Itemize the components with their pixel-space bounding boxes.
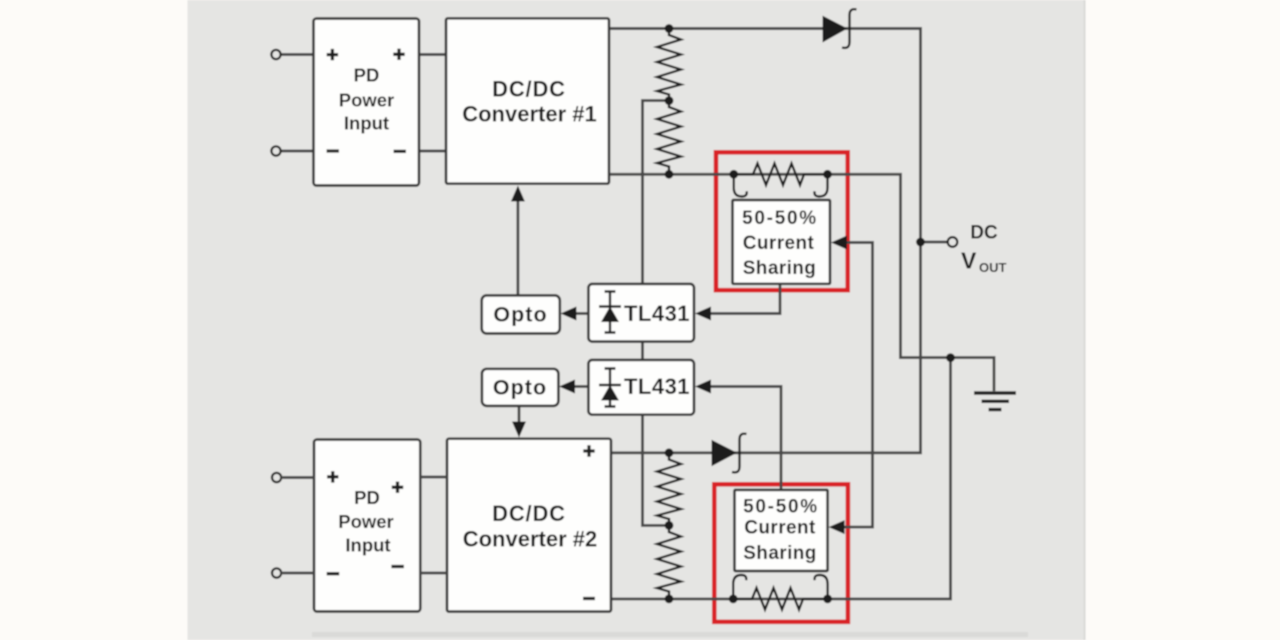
right edge shading of panel: [1084, 0, 1086, 640]
Opto box 1: [482, 295, 560, 333]
TL431 box 1: [588, 284, 694, 342]
input terminal circle 2-: [272, 568, 281, 577]
Opto box 2: [482, 369, 559, 406]
svg-text:DC: DC: [970, 223, 998, 244]
red highlight box (bottom) around current-share sense: [714, 484, 848, 622]
svg-text:DC/DC: DC/DC: [492, 77, 566, 102]
arrow down from opto 2 into converter 2: [512, 422, 526, 438]
label: DC/DC Converter #2: [463, 501, 598, 552]
input terminal circle 1+: [271, 50, 280, 59]
wire: opto 1 feedback to converter 1: [516, 200, 519, 295]
diode D2 schottky cathode: [732, 434, 747, 473]
arrow TL431 #1 to opto 1: [561, 307, 577, 321]
svg-text:Sharing: Sharing: [743, 258, 817, 279]
wire: PD input 2 to converter 2 (-): [420, 572, 447, 575]
50-50% current sharing inner box 2: [735, 490, 828, 571]
svg-text:PD: PD: [354, 487, 380, 508]
junction node: sense resistor 2 left: [729, 595, 738, 604]
wire: PD input 1 - to DC/DC converter 1: [419, 150, 446, 153]
svg-text:Input: Input: [345, 535, 390, 556]
junction node: divider 2 top: [665, 448, 674, 457]
svg-text:TL431: TL431: [624, 374, 690, 399]
junction node: Vout tap: [916, 238, 925, 247]
svg-text:Current: Current: [744, 518, 816, 539]
svg-text:PD: PD: [354, 65, 380, 86]
wire: divider 2 tap to TL431 #2: [643, 415, 670, 526]
DC/DC Converter #1 box: [446, 18, 609, 183]
wire: input terminal 1+ to PD input 1: [281, 53, 314, 56]
wire: share bus linking both current-sharing blocks: [844, 243, 873, 528]
junction node: divider 2 tap: [665, 521, 674, 530]
faint cropped bar at bottom edge: [312, 632, 1028, 637]
diode D2 triangle: [712, 440, 738, 467]
wire: terminal 2- to PD input 2: [281, 572, 314, 575]
resistor R1 (upper divider, top): [657, 29, 681, 100]
wire: TL431 #2 output to opto 2: [574, 385, 588, 388]
svg-text:50-50%: 50-50%: [743, 497, 819, 518]
PD Power Input box 1: [314, 19, 420, 186]
svg-text:Converter #2: Converter #2: [463, 527, 598, 552]
junction node: ground rail: [946, 353, 955, 362]
wire: current share block 1 to TL431 #1 reference: [710, 284, 780, 314]
wire: converter 1 negative output through sense resistor to ground rail: [609, 174, 994, 391]
current sense resistor RS2 (in bottom red box): [733, 588, 827, 610]
kelvin hook right (top box): [814, 178, 827, 197]
svg-text:Sharing: Sharing: [743, 543, 817, 564]
wire: Vout tap to output terminal: [921, 241, 948, 244]
wire: PD input 1 + to DC/DC converter 1: [419, 53, 446, 56]
svg-text:V: V: [961, 248, 977, 274]
svg-text:Input: Input: [344, 113, 389, 134]
svg-text:50-50%: 50-50%: [742, 208, 818, 229]
junction node: divider 1 bottom: [665, 170, 674, 179]
wire: divider 1 tap to TL431 #1: [643, 101, 670, 284]
polarity marks PD box 1: [327, 49, 407, 152]
PD Power Input box 2: [314, 440, 420, 612]
resistor R3 (lower divider, top): [657, 454, 681, 526]
input terminal circle 2+: [272, 473, 281, 482]
wire: terminal 2+ to PD input 2: [281, 476, 314, 479]
arrow into TL431 #1 from share block 1: [695, 307, 711, 321]
TL431 #2 symbol: [599, 369, 621, 407]
wire: link between TL431 #1 and TL431 #2: [641, 342, 644, 360]
50-50% current sharing inner box 1: [733, 200, 831, 284]
svg-text:Opto: Opto: [493, 376, 547, 400]
ground symbol: [974, 393, 1016, 410]
svg-text:Opto: Opto: [493, 303, 547, 327]
junction node: divider 2 bottom: [665, 595, 674, 604]
label: PD Power Input 1: [339, 65, 395, 134]
DC Vout output terminal circle: [948, 237, 958, 247]
wire: TL431 #1 output to opto 1: [575, 312, 588, 315]
wire: current share block 2 to TL431 #2 reference: [710, 387, 781, 490]
input terminal circle 1-: [271, 146, 280, 155]
red highlight box (top) around current-share sense: [716, 152, 848, 290]
svg-text:DC/DC: DC/DC: [492, 501, 566, 526]
svg-text:TL431: TL431: [624, 301, 690, 326]
kelvin hook left (top box): [734, 178, 747, 197]
arrow into current share block 1 (share bus): [831, 236, 847, 250]
resistor R2 (upper divider, bottom): [657, 101, 681, 174]
label: 50-50% current sharing 2: [743, 497, 819, 565]
arrow into TL431 #2 from share block 2: [695, 380, 711, 394]
label: DC/DC Converter #1: [462, 77, 597, 127]
label: 50-50% current sharing 1: [742, 208, 818, 279]
junction node: sense resistor 2 right: [823, 595, 832, 604]
diode D1 triangle: [823, 16, 848, 43]
svg-text:Converter #1: Converter #1: [462, 102, 597, 127]
gray diagram panel background: [188, 0, 1086, 640]
junction node: sense resistor 1 left: [729, 170, 738, 179]
kelvin hook left (bottom box): [733, 575, 746, 595]
label: PD Power Input 2: [338, 487, 394, 556]
label: DC Vout: [961, 223, 1007, 276]
current sense resistor RS1 (in top red box): [734, 164, 828, 186]
wire: converter 2 negative output sense line rising to ground junction: [611, 358, 951, 599]
TL431 box 2: [588, 360, 694, 415]
junction node: divider 1 tap: [665, 96, 674, 105]
TL431 #1 symbol: [599, 292, 621, 333]
svg-text:Current: Current: [743, 233, 815, 254]
DC/DC Converter #2 box: [447, 439, 611, 612]
arrow into current share block 2 (share bus): [829, 520, 845, 534]
resistor R4 (lower divider, bottom): [657, 526, 681, 599]
arrow up from opto 1 into converter 1: [511, 186, 525, 202]
junction node: sense resistor 1 right: [823, 170, 832, 179]
wire: PD input 2 to converter 2 (+): [420, 476, 447, 479]
wire: input terminal 1- to PD input 1: [281, 150, 314, 153]
svg-text:OUT: OUT: [979, 260, 1007, 275]
junction node: divider 1 top: [665, 24, 674, 33]
wire: opto 2 feedback to converter 2: [518, 406, 521, 423]
arrow TL431 #2 to opto 2: [559, 380, 575, 394]
polarity marks PD box 2: [327, 471, 404, 574]
wire: V+ bus from converter 1 through diode D1 down to converter 2 output diode D2: [609, 29, 921, 453]
diode D1 schottky cathode: [842, 9, 857, 48]
kelvin hook right (bottom box): [815, 575, 828, 595]
svg-text:Power: Power: [338, 511, 394, 532]
svg-text:Power: Power: [339, 90, 395, 111]
polarity marks converter 2 outputs: [583, 445, 595, 598]
